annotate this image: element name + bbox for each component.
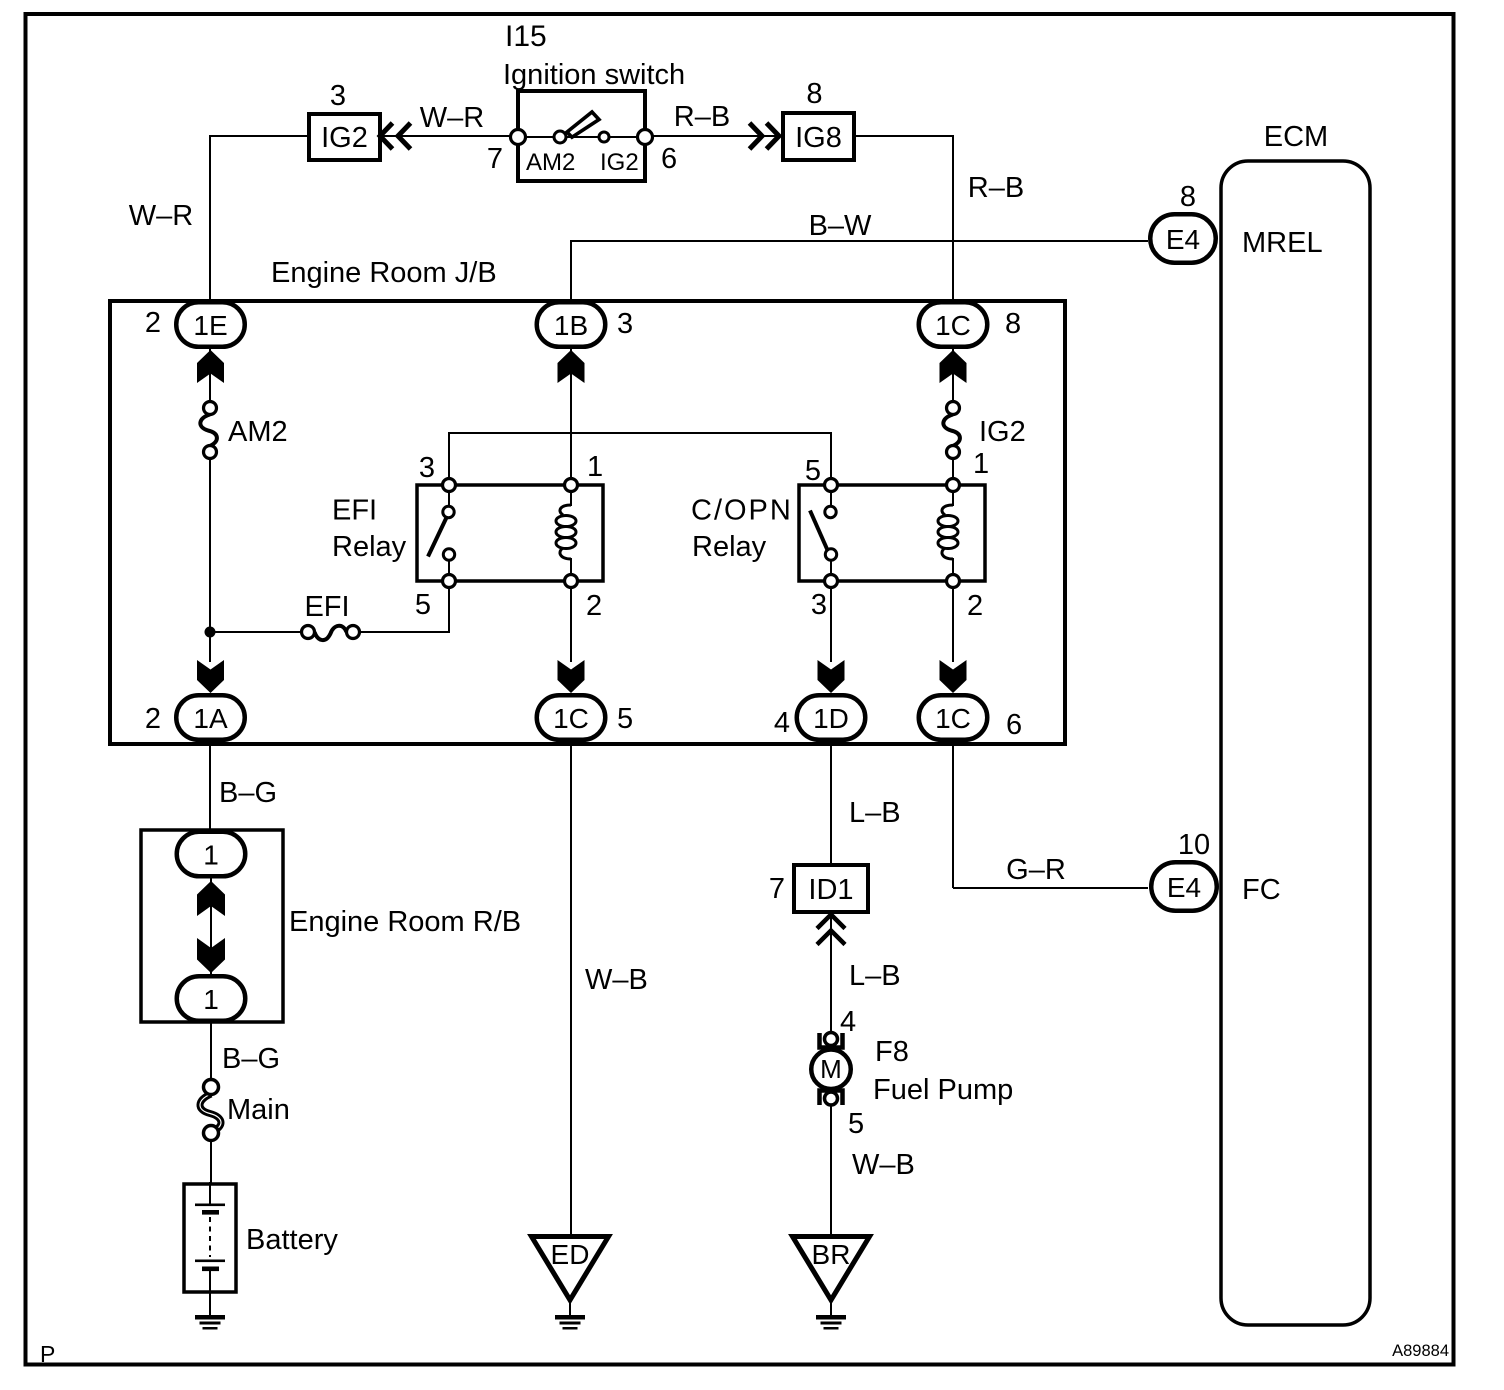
svg-text:1A: 1A	[193, 703, 228, 734]
svg-text:6: 6	[1006, 709, 1022, 741]
svg-text:Battery: Battery	[246, 1224, 338, 1256]
svg-text:E4: E4	[1166, 224, 1200, 255]
svg-text:2: 2	[145, 307, 161, 339]
svg-text:AM2: AM2	[228, 416, 288, 448]
svg-text:Ignition switch: Ignition switch	[503, 59, 685, 91]
svg-text:W–R: W–R	[420, 102, 484, 134]
svg-text:Engine Room R/B: Engine Room R/B	[289, 906, 521, 938]
svg-text:7: 7	[769, 873, 785, 905]
svg-text:1B: 1B	[554, 310, 588, 341]
svg-text:FC: FC	[1242, 874, 1281, 906]
svg-text:I15: I15	[505, 20, 547, 53]
svg-text:AM2: AM2	[526, 149, 575, 176]
svg-text:1E: 1E	[193, 310, 227, 341]
svg-text:W–B: W–B	[852, 1149, 915, 1181]
svg-text:W–R: W–R	[129, 200, 193, 232]
svg-text:W–B: W–B	[585, 964, 648, 996]
svg-text:B–G: B–G	[222, 1043, 280, 1075]
svg-text:L–B: L–B	[849, 960, 901, 992]
svg-text:4: 4	[840, 1006, 856, 1038]
svg-text:4: 4	[774, 707, 790, 739]
svg-text:1C: 1C	[935, 703, 971, 734]
svg-text:B–W: B–W	[809, 210, 872, 242]
svg-text:C/OPN: C/OPN	[691, 495, 793, 527]
svg-text:1: 1	[203, 840, 219, 871]
svg-text:5: 5	[848, 1108, 864, 1140]
svg-text:1: 1	[973, 448, 989, 480]
svg-text:1C: 1C	[553, 703, 589, 734]
svg-text:1: 1	[203, 984, 219, 1015]
svg-text:A89884: A89884	[1392, 1342, 1449, 1360]
svg-text:8: 8	[1005, 308, 1021, 340]
svg-text:2: 2	[586, 590, 602, 622]
svg-text:P: P	[40, 1341, 55, 1367]
svg-text:R–B: R–B	[674, 101, 730, 133]
svg-text:Main: Main	[227, 1094, 290, 1126]
svg-text:EFI: EFI	[332, 495, 377, 527]
svg-text:EFI: EFI	[304, 591, 349, 623]
svg-text:M: M	[820, 1054, 842, 1084]
svg-text:Relay: Relay	[332, 531, 407, 563]
svg-text:10: 10	[1178, 829, 1210, 861]
svg-text:ECM: ECM	[1264, 121, 1328, 153]
svg-text:MREL: MREL	[1242, 227, 1323, 259]
svg-text:L–B: L–B	[849, 797, 901, 829]
svg-text:IG2: IG2	[979, 416, 1026, 448]
svg-text:R–B: R–B	[968, 172, 1024, 204]
svg-text:IG8: IG8	[795, 122, 842, 154]
svg-text:2: 2	[967, 590, 983, 622]
svg-text:5: 5	[805, 455, 821, 487]
svg-text:8: 8	[806, 78, 822, 110]
svg-text:3: 3	[617, 308, 633, 340]
svg-text:E4: E4	[1167, 872, 1201, 903]
svg-text:3: 3	[419, 452, 435, 484]
svg-text:B–G: B–G	[219, 777, 277, 809]
svg-text:3: 3	[811, 589, 827, 621]
svg-text:BR: BR	[812, 1239, 851, 1270]
svg-text:5: 5	[415, 589, 431, 621]
svg-text:1C: 1C	[935, 310, 971, 341]
svg-text:IG2: IG2	[600, 149, 639, 176]
svg-text:Engine Room J/B: Engine Room J/B	[271, 257, 497, 289]
svg-text:1D: 1D	[813, 703, 849, 734]
svg-text:3: 3	[330, 80, 346, 112]
svg-text:Relay: Relay	[692, 531, 767, 563]
svg-text:ID1: ID1	[808, 874, 853, 906]
svg-text:G–R: G–R	[1006, 854, 1066, 886]
svg-text:Fuel Pump: Fuel Pump	[873, 1074, 1013, 1106]
svg-text:F8: F8	[875, 1036, 909, 1068]
svg-text:8: 8	[1180, 181, 1196, 213]
svg-text:IG2: IG2	[321, 122, 368, 154]
svg-text:6: 6	[661, 143, 677, 175]
svg-text:5: 5	[617, 703, 633, 735]
svg-text:ED: ED	[551, 1239, 590, 1270]
svg-text:2: 2	[145, 703, 161, 735]
svg-text:1: 1	[587, 451, 603, 483]
svg-text:7: 7	[487, 143, 503, 175]
